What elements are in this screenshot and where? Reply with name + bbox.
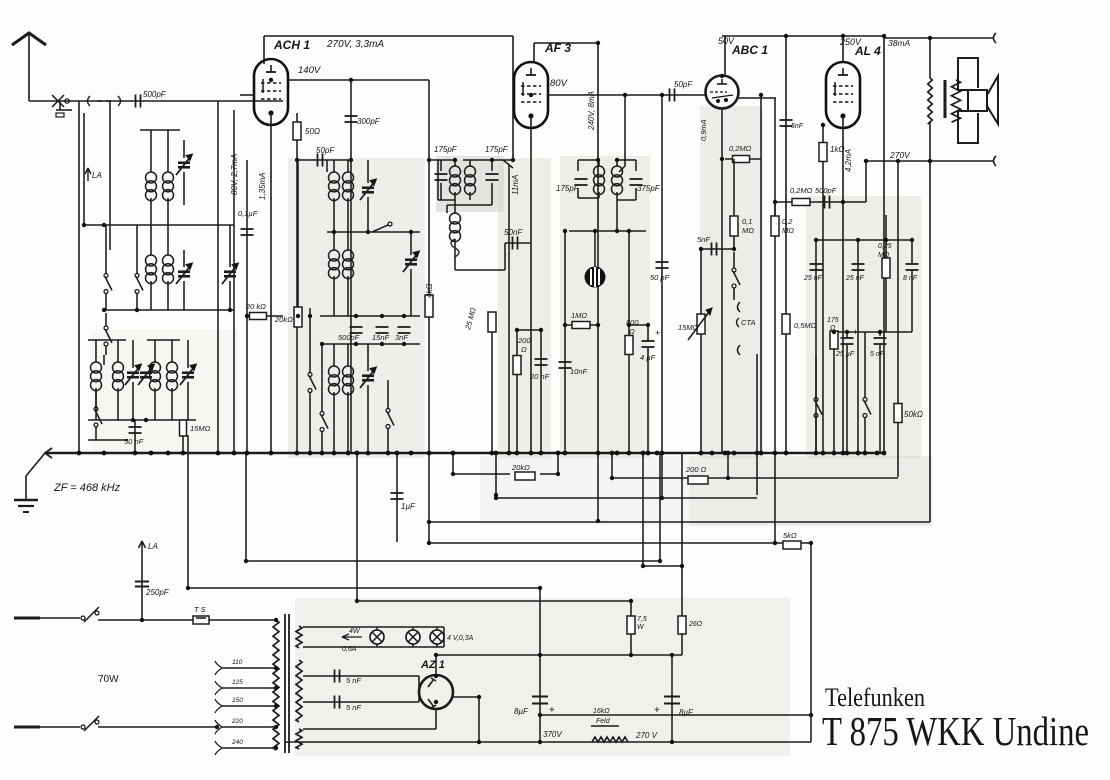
- svg-text:4 µF: 4 µF: [640, 353, 656, 362]
- svg-text:11mA: 11mA: [511, 175, 520, 195]
- svg-text:5 nF: 5 nF: [870, 351, 885, 358]
- svg-text:20kΩ: 20kΩ: [511, 463, 530, 472]
- svg-text:500pF: 500pF: [338, 333, 360, 342]
- svg-text:50Ω: 50Ω: [305, 127, 320, 136]
- svg-text:26Ω: 26Ω: [688, 621, 703, 628]
- svg-text:15MΩ: 15MΩ: [678, 323, 699, 332]
- svg-text:38mA: 38mA: [888, 38, 911, 48]
- svg-text:0,5MΩ: 0,5MΩ: [794, 321, 817, 330]
- svg-text:0,2MΩ: 0,2MΩ: [729, 144, 752, 153]
- svg-text:50pF: 50pF: [316, 146, 335, 155]
- svg-text:CTA: CTA: [741, 318, 755, 327]
- svg-text:300pF: 300pF: [357, 117, 381, 126]
- svg-text:Ω: Ω: [629, 327, 635, 336]
- svg-text:80V, 2,7mA: 80V, 2,7mA: [230, 154, 239, 195]
- svg-text:240V, 8mA: 240V, 8mA: [587, 91, 596, 131]
- svg-text:16kΩ: 16kΩ: [593, 708, 610, 715]
- svg-text:3nF: 3nF: [395, 333, 408, 342]
- svg-text:8µF: 8µF: [514, 707, 529, 716]
- svg-text:50pF: 50pF: [674, 80, 693, 89]
- svg-text:500pF: 500pF: [143, 90, 167, 99]
- svg-text:0,6A: 0,6A: [342, 646, 357, 653]
- svg-text:15nF: 15nF: [372, 333, 390, 342]
- svg-text:20kΩ: 20kΩ: [274, 315, 293, 324]
- svg-text:AL 4: AL 4: [854, 44, 881, 58]
- svg-text:ZF = 468 kHz: ZF = 468 kHz: [53, 482, 121, 494]
- svg-text:200 Ω: 200 Ω: [685, 465, 707, 474]
- svg-text:+: +: [853, 327, 858, 337]
- svg-text:AZ 1: AZ 1: [420, 659, 445, 671]
- svg-text:1kΩ: 1kΩ: [830, 145, 845, 154]
- svg-text:175: 175: [827, 317, 839, 324]
- svg-text:1µF: 1µF: [401, 502, 416, 511]
- svg-text:175pF: 175pF: [434, 145, 458, 154]
- svg-text:4W: 4W: [349, 628, 361, 635]
- svg-text:Ω: Ω: [521, 345, 527, 354]
- svg-text:125: 125: [232, 679, 243, 686]
- svg-text:5 nF: 5 nF: [346, 676, 361, 685]
- svg-text:0,1µF: 0,1µF: [238, 209, 258, 218]
- svg-text:0,25: 0,25: [878, 243, 892, 250]
- svg-text:Feld: Feld: [596, 718, 611, 725]
- svg-text:50nF: 50nF: [504, 228, 523, 237]
- svg-text:ACH 1: ACH 1: [273, 38, 310, 52]
- svg-text:250pF: 250pF: [145, 588, 170, 597]
- svg-text:50kΩ: 50kΩ: [904, 410, 923, 419]
- svg-text:4 V,0,3A: 4 V,0,3A: [447, 635, 474, 642]
- svg-text:80V: 80V: [550, 78, 569, 89]
- svg-text:LA: LA: [92, 171, 102, 180]
- svg-text:15MΩ: 15MΩ: [190, 424, 211, 433]
- svg-text:0,9mA: 0,9mA: [699, 119, 708, 141]
- svg-text:200: 200: [517, 336, 531, 345]
- svg-text:270V, 3,3mA: 270V, 3,3mA: [326, 39, 384, 50]
- svg-text:175pF: 175pF: [556, 184, 580, 193]
- svg-text:25 nF: 25 nF: [803, 275, 823, 282]
- svg-text:50 pF: 50 pF: [650, 273, 670, 282]
- svg-text:20 kΩ: 20 kΩ: [245, 302, 266, 311]
- svg-text:7,5: 7,5: [637, 616, 647, 623]
- svg-text:500pF: 500pF: [815, 186, 837, 195]
- svg-text:240: 240: [231, 739, 243, 746]
- svg-text:370V: 370V: [543, 730, 562, 739]
- svg-text:5 nF: 5 nF: [346, 703, 361, 712]
- svg-text:25 nF: 25 nF: [845, 275, 865, 282]
- svg-text:270V: 270V: [889, 150, 911, 160]
- svg-text:T 875 WKK Undine: T 875 WKK Undine: [822, 708, 1089, 754]
- svg-text:70W: 70W: [98, 674, 119, 685]
- svg-text:T S: T S: [194, 605, 206, 614]
- svg-text:175pF: 175pF: [485, 145, 509, 154]
- svg-text:1MΩ: 1MΩ: [571, 311, 587, 320]
- svg-text:25 µF: 25 µF: [835, 351, 855, 358]
- svg-text:ABC 1: ABC 1: [731, 43, 768, 57]
- svg-text:5kΩ: 5kΩ: [783, 531, 797, 540]
- svg-text:5nF: 5nF: [791, 123, 804, 130]
- svg-text:270 V: 270 V: [635, 731, 658, 740]
- svg-text:MΩ: MΩ: [782, 226, 794, 235]
- svg-text:MΩ: MΩ: [742, 226, 754, 235]
- svg-text:4,2mA: 4,2mA: [844, 149, 853, 172]
- svg-text:20 nF: 20 nF: [529, 372, 550, 381]
- svg-text:110: 110: [232, 659, 243, 666]
- svg-text:50 nF: 50 nF: [124, 437, 144, 446]
- svg-text:8 nF: 8 nF: [903, 275, 918, 282]
- svg-text:MΩ: MΩ: [878, 252, 890, 259]
- svg-text:AF 3: AF 3: [544, 41, 571, 55]
- svg-text:0,2: 0,2: [782, 217, 793, 226]
- svg-text:375pF: 375pF: [637, 184, 661, 193]
- svg-text:25 MΩ: 25 MΩ: [463, 306, 478, 331]
- svg-text:LA: LA: [148, 542, 158, 551]
- svg-text:0,1: 0,1: [742, 217, 752, 226]
- svg-text:5nF: 5nF: [697, 235, 710, 244]
- svg-text:10nF: 10nF: [570, 367, 588, 376]
- svg-text:150: 150: [232, 697, 243, 704]
- svg-text:+: +: [655, 328, 660, 338]
- svg-text:220: 220: [231, 718, 243, 725]
- svg-text:0,2MΩ: 0,2MΩ: [790, 186, 813, 195]
- svg-text:1,35mA: 1,35mA: [258, 172, 267, 200]
- svg-text:140V: 140V: [298, 65, 322, 76]
